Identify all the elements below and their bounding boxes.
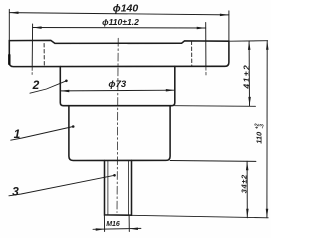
svg-text:2: 2	[32, 78, 40, 92]
svg-text:ϕ73: ϕ73	[108, 79, 126, 90]
svg-text:3: 3	[12, 184, 19, 198]
svg-text:M16: M16	[106, 221, 120, 228]
svg-text:34±2: 34±2	[239, 174, 248, 193]
svg-text:ϕ140: ϕ140	[113, 3, 139, 15]
svg-text:41±2: 41±2	[242, 64, 252, 90]
svg-text:1: 1	[14, 127, 21, 141]
svg-text:-3: -3	[260, 124, 266, 129]
svg-text:110: 110	[255, 131, 264, 144]
svg-text:ϕ110±1.2: ϕ110±1.2	[102, 17, 139, 27]
